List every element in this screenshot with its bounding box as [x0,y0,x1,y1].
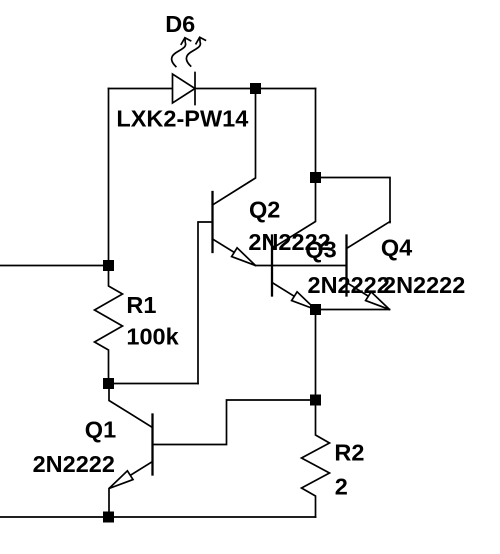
transistor Q2 collector [213,89,256,206]
wire node to Q4 collector branch [316,178,391,223]
junction node LED/Q2 collector [250,83,261,94]
svg-text:Q4: Q4 [381,234,412,260]
svg-text:Q1: Q1 [85,417,116,443]
svg-text:2: 2 [335,474,348,500]
svg-text:R1: R1 [126,292,156,318]
junction node Q3/Q4 collectors [310,172,321,183]
transistor Q3 base bar [271,236,273,296]
junction node bottom rail [103,512,114,523]
svg-text:2N2222: 2N2222 [33,451,115,477]
junction node R1 bottom [103,378,114,389]
diode D6 triangle [173,74,196,103]
bottom rail [0,516,316,518]
wire Q1 base link [153,400,316,445]
transistor Q1 emitter [109,462,153,518]
transistor Q4 emitter arrow [366,292,390,310]
wire left input to R1 top node [0,265,109,267]
resistor R1 [95,266,123,384]
transistor Q4 emitter [347,283,390,310]
transistor Q3 emitter arrow [292,292,316,310]
svg-text:2N2222: 2N2222 [383,272,465,298]
junction node emitters [310,304,321,315]
transistor Q4 base bar [345,236,347,296]
wire LED cathode to top-right [195,88,316,90]
svg-text:Q3: Q3 [305,237,336,263]
wire emitter node down to R2 node [315,310,317,401]
wire R1 bottom node to Q2 base column [109,383,199,385]
svg-text:D6: D6 [165,11,195,37]
wire Q4 emitter back to node [316,309,390,311]
wire Q2 emitter to Q3/Q4 bases [256,265,347,267]
transistor Q1 base bar [151,415,153,475]
junction node R1 top [103,260,114,271]
transistor Q4 collector [347,222,391,249]
transistor Q3 collector [272,178,316,249]
LED light arrow 1 [172,38,191,67]
svg-text:R2: R2 [334,440,364,466]
transistor Q2 emitter [213,239,256,266]
wire vertical left riser [108,89,110,266]
transistor Q2 emitter arrow [232,248,256,266]
svg-text:100k: 100k [126,324,179,350]
junction node Q1 base / R2 top [310,395,321,406]
svg-text:LXK2-PW14: LXK2-PW14 [116,106,248,132]
diode D6 cathode bar [194,73,196,105]
svg-text:2N2222: 2N2222 [308,272,390,298]
transistor Q1 collector [109,384,153,428]
wire to LED anode [109,88,173,90]
transistor Q1 emitter arrow [109,471,133,489]
resistor R2 [302,400,330,517]
LED light arrow 2 [186,37,205,66]
wire top-right corner down to node [315,89,317,178]
wire Q2 base column [198,222,213,384]
transistor Q2 base bar [211,192,213,252]
svg-text:Q2: Q2 [249,196,280,222]
transistor Q3 emitter [272,283,316,310]
